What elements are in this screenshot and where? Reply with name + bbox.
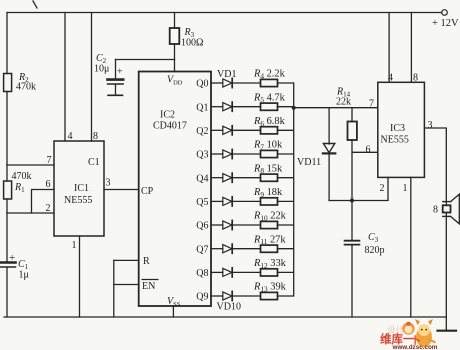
svg-text:3: 3: [428, 120, 433, 131]
wire VD2 to R5: [232, 106, 260, 108]
wire VD1 to R4: [232, 82, 260, 84]
wire R12 to bus: [278, 271, 294, 273]
diode VD10: [223, 291, 232, 300]
wire IC1 pin7: [7, 164, 54, 166]
wire bus to IC3 pin7: [294, 107, 378, 109]
wire speaker to rail: [445, 202, 447, 317]
resistor R13: [261, 292, 278, 299]
svg-text:820p: 820p: [365, 245, 385, 256]
wire IC1 pin3 to CP: [104, 189, 139, 191]
wire R11 to bus: [278, 248, 294, 250]
wire IC3 pin2: [329, 177, 388, 200]
svg-text:10μ: 10μ: [94, 64, 109, 75]
speaker: [443, 201, 451, 203]
svg-text:R: R: [143, 256, 150, 267]
wire VD9 to R12: [232, 271, 260, 273]
wire R10 to bus: [278, 224, 294, 226]
wire R4 to bus: [278, 82, 294, 84]
wire IC3 pin1: [410, 177, 412, 317]
wire IC1 pin6 L: [32, 190, 55, 214]
svg-text:Q3: Q3: [196, 150, 208, 161]
svg-text:Q0: Q0: [196, 79, 208, 90]
resistor R4: [261, 79, 278, 86]
svg-text:+ 12V: + 12V: [432, 18, 459, 29]
diode VD6: [223, 197, 232, 206]
svg-text:6: 6: [366, 145, 371, 156]
wire Q4 output: [211, 177, 223, 179]
wire IC1 pin4: [64, 13, 66, 142]
wire IC2 R pin: [114, 259, 139, 261]
node junction C3: [350, 199, 354, 203]
op-amp IC1 box: [54, 141, 104, 236]
bottom rail wire: [4, 316, 446, 318]
svg-text:Q7: Q7: [196, 244, 208, 255]
wire Q9 output: [211, 295, 223, 297]
wire IC1 pin2: [7, 212, 54, 214]
wire R2 to pin7 junction: [6, 92, 8, 166]
svg-text:Q5: Q5: [196, 197, 208, 208]
svg-text:7: 7: [47, 155, 52, 166]
svg-text:6: 6: [46, 179, 51, 190]
wire IC1 pin1: [79, 236, 81, 317]
svg-text:R6 6.8k: R6 6.8k: [253, 116, 286, 128]
watermark: [380, 319, 438, 350]
svg-text:C1: C1: [88, 157, 100, 168]
svg-text:EN: EN: [142, 281, 155, 292]
svg-text:1: 1: [403, 183, 408, 194]
svg-text:+: +: [9, 252, 15, 264]
svg-text:IC1: IC1: [74, 183, 89, 194]
wire pin2 junction to C1: [6, 213, 8, 261]
svg-text:470k: 470k: [12, 171, 32, 182]
resistor R8: [261, 174, 278, 181]
svg-text:R7 10k: R7 10k: [253, 140, 283, 152]
svg-text:22k: 22k: [336, 97, 351, 108]
wire bus vertical: [293, 83, 295, 296]
svg-text:3: 3: [106, 178, 111, 189]
wire left rail upper (rail to R2): [6, 13, 8, 74]
resistor R2: [4, 74, 12, 92]
node +12V terminal circle: [442, 10, 448, 16]
wire R6 to bus: [278, 129, 294, 131]
diode VD3: [223, 126, 232, 135]
wire VD4 to R7: [232, 153, 260, 155]
diode VD8: [223, 244, 232, 253]
svg-text:R5 4.7k: R5 4.7k: [253, 92, 286, 104]
wire R13 to bus: [278, 295, 294, 297]
wire R5 to bus: [278, 106, 294, 108]
svg-text:VD11: VD11: [297, 157, 321, 168]
svg-text:1: 1: [72, 240, 77, 251]
wire C2 top link: [116, 59, 175, 61]
svg-text:4: 4: [388, 73, 393, 84]
watermark mascot head: [402, 322, 414, 334]
svg-text:100Ω: 100Ω: [181, 38, 203, 49]
svg-text:8: 8: [93, 131, 98, 142]
resistor R11: [261, 245, 278, 252]
svg-text:2: 2: [380, 183, 385, 194]
svg-text:Q2: Q2: [196, 126, 208, 137]
wire VD3 to R6: [232, 129, 260, 131]
wire R1 to pin2 junction: [6, 199, 8, 213]
resistor R14: [351, 108, 353, 122]
wire VD8 to R11: [232, 248, 260, 250]
svg-text:R10 22k: R10 22k: [253, 211, 287, 223]
svg-text:CP: CP: [141, 186, 154, 197]
diode VD9: [223, 268, 232, 277]
wire VD6 to R9: [232, 200, 260, 202]
wire IC3 pin6: [352, 151, 378, 153]
ground: [445, 317, 447, 330]
svg-text:NE555: NE555: [381, 135, 409, 146]
wire Q3 output: [211, 153, 223, 155]
wire Q1 output: [211, 106, 223, 108]
wire Q0 output: [211, 82, 223, 84]
svg-text:Q8: Q8: [196, 268, 208, 279]
wire IC1 pin8: [91, 13, 93, 142]
wire IC3 pin3 to speaker: [424, 128, 446, 202]
resistor R5: [261, 103, 278, 110]
watermark mascot fox: [415, 319, 420, 325]
wire VD10 to R13: [232, 295, 260, 297]
svg-text:IC3: IC3: [390, 123, 405, 134]
svg-text:R12 33k: R12 33k: [253, 258, 287, 270]
svg-text:VD1: VD1: [217, 69, 236, 80]
svg-text:4: 4: [68, 131, 73, 142]
op-amp IC2 box: [139, 72, 211, 307]
capacitor C3: [351, 201, 353, 241]
svg-text:NE555: NE555: [64, 195, 92, 206]
svg-text:CD4017: CD4017: [153, 121, 187, 132]
wire VD5 to R8: [232, 177, 260, 179]
node junction bus: [292, 106, 296, 110]
wire R/EN to bottom rail: [113, 260, 115, 317]
resistor R12: [261, 269, 278, 276]
svg-text:R4 2.2k: R4 2.2k: [253, 69, 286, 81]
label EN overline: [142, 279, 159, 281]
diode/resistor ladder rows: [196, 69, 293, 303]
op-amp IC3 box: [378, 82, 425, 177]
diode VD7: [223, 220, 232, 229]
svg-text:Q9: Q9: [196, 292, 208, 303]
wire top +12V rail: [7, 12, 442, 14]
wire pin7 junction to R1: [6, 165, 8, 181]
resistor R1: [4, 181, 12, 199]
wire VD7 to R10: [232, 224, 260, 226]
resistor R7: [261, 150, 278, 157]
svg-text:R8 15k: R8 15k: [253, 163, 283, 175]
resistor R3: [174, 13, 176, 29]
capacitor C1: [0, 261, 16, 264]
svg-text:Q1: Q1: [196, 102, 208, 113]
resistor R10: [261, 221, 278, 228]
svg-text:Q6: Q6: [196, 221, 208, 232]
wire Q2 output: [211, 129, 223, 131]
svg-text:VD10: VD10: [217, 302, 241, 313]
svg-text:Q4: Q4: [196, 173, 208, 184]
svg-text:8: 8: [413, 73, 418, 84]
diode VD1: [223, 78, 232, 87]
diode VD2: [223, 102, 232, 111]
wire IC3 pin4: [388, 13, 390, 83]
wire R7 to bus: [278, 153, 294, 155]
diode VD11: [328, 108, 330, 144]
svg-text:R9 18k: R9 18k: [253, 187, 283, 199]
wire IC2 VSS: [172, 306, 174, 317]
svg-text:R11 27k: R11 27k: [253, 234, 286, 246]
svg-text:7: 7: [369, 99, 374, 110]
svg-text:470k: 470k: [16, 82, 36, 93]
svg-text:1μ: 1μ: [19, 270, 29, 281]
wire IC3 pin8: [410, 13, 412, 83]
svg-text:R13 39k: R13 39k: [253, 282, 287, 294]
wire R9 to bus: [278, 200, 294, 202]
resistor R9: [261, 198, 278, 205]
svg-text:+: +: [117, 67, 123, 78]
wire C1 to bottom rail: [6, 268, 8, 317]
svg-text:2: 2: [46, 203, 51, 214]
svg-text:8: 8: [433, 205, 438, 216]
diode VD4: [223, 149, 232, 158]
wire Q7 output: [211, 248, 223, 250]
wire Q6 output: [211, 224, 223, 226]
svg-text:IC2: IC2: [160, 110, 175, 121]
capacitor C2: [115, 60, 117, 79]
wire Q5 output: [211, 200, 223, 202]
stray mark: [33, 1, 37, 8]
wire R8 to bus: [278, 177, 294, 179]
wire IC2 EN pin: [114, 284, 139, 286]
resistor R6: [261, 127, 278, 134]
diode VD5: [223, 173, 232, 182]
wire Q8 output: [211, 271, 223, 273]
svg-text:www.dzsc.com: www.dzsc.com: [392, 344, 438, 350]
